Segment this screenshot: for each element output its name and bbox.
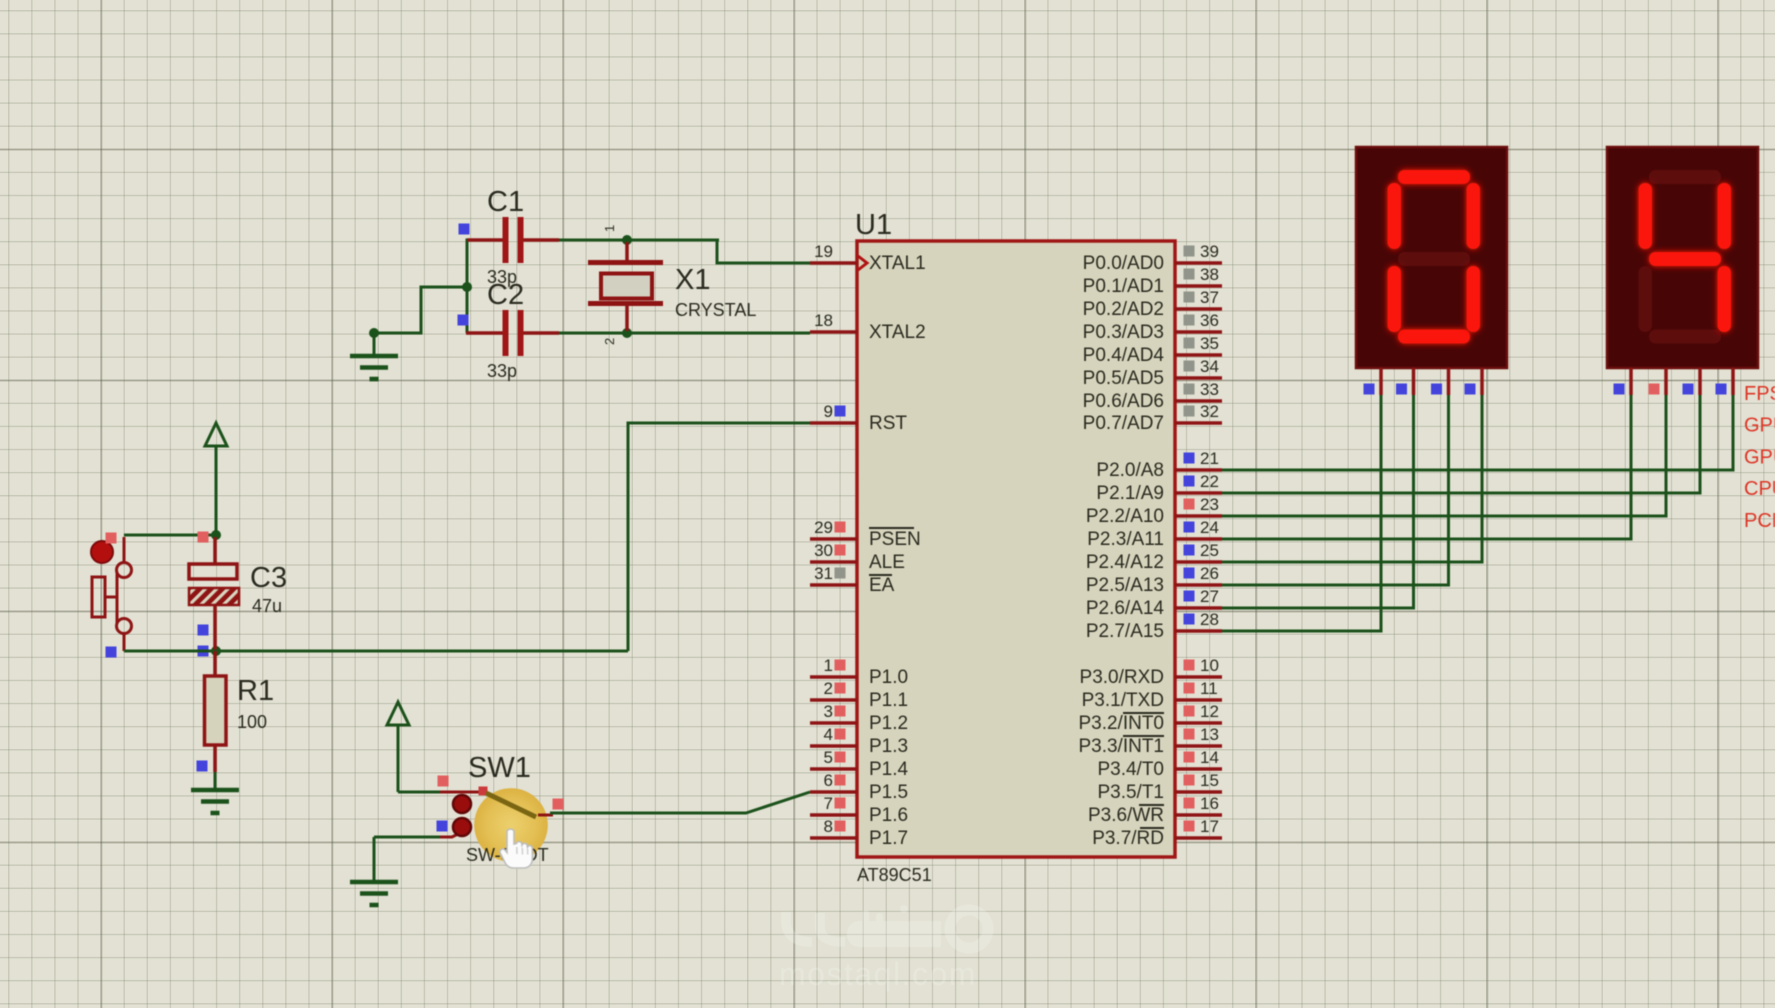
svg-text:P3.3/INT1: P3.3/INT1 bbox=[1078, 736, 1164, 757]
svg-text:mostaql.com: mostaql.com bbox=[779, 956, 977, 992]
svg-text:6: 6 bbox=[824, 771, 833, 790]
svg-text:5: 5 bbox=[824, 748, 833, 767]
svg-text:P2.6/A14: P2.6/A14 bbox=[1086, 598, 1165, 619]
svg-text:2: 2 bbox=[602, 338, 617, 345]
svg-text:P2.2/A10: P2.2/A10 bbox=[1086, 506, 1164, 527]
svg-text:RST: RST bbox=[869, 413, 907, 434]
svg-text:SW1: SW1 bbox=[468, 752, 531, 784]
svg-text:2: 2 bbox=[824, 679, 833, 698]
svg-text:EA: EA bbox=[869, 575, 895, 596]
svg-text:3: 3 bbox=[824, 702, 833, 721]
svg-text:P3.1/TXD: P3.1/TXD bbox=[1082, 690, 1164, 711]
svg-text:33p: 33p bbox=[487, 361, 517, 381]
svg-text:10: 10 bbox=[1200, 656, 1219, 675]
svg-text:XTAL2: XTAL2 bbox=[869, 322, 926, 343]
svg-text:47u: 47u bbox=[252, 596, 282, 616]
svg-text:21: 21 bbox=[1200, 449, 1219, 468]
svg-text:P0.3/AD3: P0.3/AD3 bbox=[1083, 322, 1164, 343]
svg-text:39: 39 bbox=[1200, 242, 1219, 261]
svg-text:11: 11 bbox=[1200, 679, 1218, 698]
svg-text:1: 1 bbox=[824, 656, 833, 675]
svg-text:1: 1 bbox=[602, 225, 617, 232]
svg-text:P0.2/AD2: P0.2/AD2 bbox=[1083, 299, 1164, 320]
svg-text:CPU: CPU bbox=[1744, 478, 1775, 500]
svg-text:28: 28 bbox=[1200, 610, 1219, 629]
svg-text:P3.0/RXD: P3.0/RXD bbox=[1080, 667, 1164, 688]
svg-text:27: 27 bbox=[1200, 587, 1219, 606]
svg-text:GPU: GPU bbox=[1744, 415, 1775, 437]
svg-text:GPU: GPU bbox=[1744, 446, 1775, 468]
svg-text:PCL: PCL bbox=[1744, 510, 1775, 532]
svg-text:P2.4/A12: P2.4/A12 bbox=[1086, 552, 1164, 573]
svg-text:C1: C1 bbox=[487, 186, 524, 218]
svg-text:X1: X1 bbox=[675, 264, 710, 296]
svg-text:37: 37 bbox=[1200, 288, 1219, 307]
svg-text:P1.5: P1.5 bbox=[869, 782, 908, 803]
svg-text:P1.3: P1.3 bbox=[869, 736, 908, 757]
svg-text:PSEN: PSEN bbox=[869, 529, 921, 550]
svg-text:P3.6/WR: P3.6/WR bbox=[1088, 805, 1164, 826]
svg-text:P1.4: P1.4 bbox=[869, 759, 909, 780]
svg-text:P0.1/AD1: P0.1/AD1 bbox=[1083, 276, 1164, 297]
svg-text:C2: C2 bbox=[487, 279, 524, 311]
svg-text:7: 7 bbox=[824, 794, 833, 813]
svg-text:22: 22 bbox=[1200, 472, 1219, 491]
svg-text:P2.0/A8: P2.0/A8 bbox=[1096, 460, 1164, 481]
svg-text:38: 38 bbox=[1200, 265, 1219, 284]
svg-text:24: 24 bbox=[1200, 518, 1219, 537]
svg-text:P0.6/AD6: P0.6/AD6 bbox=[1083, 391, 1164, 412]
svg-text:12: 12 bbox=[1200, 702, 1219, 721]
svg-text:19: 19 bbox=[814, 242, 833, 261]
svg-text:26: 26 bbox=[1200, 564, 1219, 583]
svg-text:34: 34 bbox=[1200, 357, 1219, 376]
svg-text:32: 32 bbox=[1200, 402, 1219, 421]
svg-text:25: 25 bbox=[1200, 541, 1219, 560]
svg-text:36: 36 bbox=[1200, 311, 1219, 330]
svg-text:23: 23 bbox=[1200, 495, 1219, 514]
svg-text:P2.3/A11: P2.3/A11 bbox=[1087, 529, 1164, 550]
svg-text:P3.7/RD: P3.7/RD bbox=[1092, 828, 1164, 849]
svg-text:U1: U1 bbox=[855, 209, 892, 241]
svg-text:30: 30 bbox=[814, 541, 833, 560]
svg-text:P2.1/A9: P2.1/A9 bbox=[1096, 483, 1164, 504]
svg-text:P0.5/AD5: P0.5/AD5 bbox=[1083, 368, 1164, 389]
svg-text:13: 13 bbox=[1200, 725, 1219, 744]
svg-text:P0.4/AD4: P0.4/AD4 bbox=[1083, 345, 1165, 366]
svg-text:9: 9 bbox=[824, 402, 833, 421]
svg-text:8: 8 bbox=[824, 817, 833, 836]
svg-text:P3.4/T0: P3.4/T0 bbox=[1097, 759, 1164, 780]
svg-text:FPS: FPS bbox=[1744, 383, 1775, 405]
svg-text:33: 33 bbox=[1200, 380, 1219, 399]
svg-text:4: 4 bbox=[824, 725, 833, 744]
svg-text:AT89C51: AT89C51 bbox=[857, 865, 932, 885]
svg-text:P2.5/A13: P2.5/A13 bbox=[1086, 575, 1164, 596]
svg-text:P1.0: P1.0 bbox=[869, 667, 908, 688]
svg-text:15: 15 bbox=[1200, 771, 1219, 790]
svg-text:14: 14 bbox=[1200, 748, 1219, 767]
svg-text:35: 35 bbox=[1200, 334, 1219, 353]
svg-text:P1.2: P1.2 bbox=[869, 713, 908, 734]
svg-text:P3.2/INT0: P3.2/INT0 bbox=[1078, 713, 1164, 734]
svg-text:R1: R1 bbox=[237, 675, 274, 707]
svg-text:31: 31 bbox=[814, 564, 833, 583]
svg-text:P3.5/T1: P3.5/T1 bbox=[1097, 782, 1164, 803]
svg-text:29: 29 bbox=[814, 518, 833, 537]
svg-text:C3: C3 bbox=[250, 562, 287, 594]
svg-text:18: 18 bbox=[814, 311, 833, 330]
svg-text:ALE: ALE bbox=[869, 552, 905, 573]
svg-text:P0.7/AD7: P0.7/AD7 bbox=[1083, 413, 1164, 434]
svg-text:17: 17 bbox=[1200, 817, 1219, 836]
svg-text:100: 100 bbox=[237, 712, 267, 732]
svg-text:P2.7/A15: P2.7/A15 bbox=[1086, 621, 1164, 642]
svg-text:XTAL1: XTAL1 bbox=[869, 253, 926, 274]
svg-text:P0.0/AD0: P0.0/AD0 bbox=[1083, 253, 1164, 274]
svg-text:16: 16 bbox=[1200, 794, 1219, 813]
svg-text:P1.1: P1.1 bbox=[869, 690, 908, 711]
svg-text:CRYSTAL: CRYSTAL bbox=[675, 300, 756, 320]
svg-text:P1.7: P1.7 bbox=[869, 828, 908, 849]
svg-text:P1.6: P1.6 bbox=[869, 805, 908, 826]
